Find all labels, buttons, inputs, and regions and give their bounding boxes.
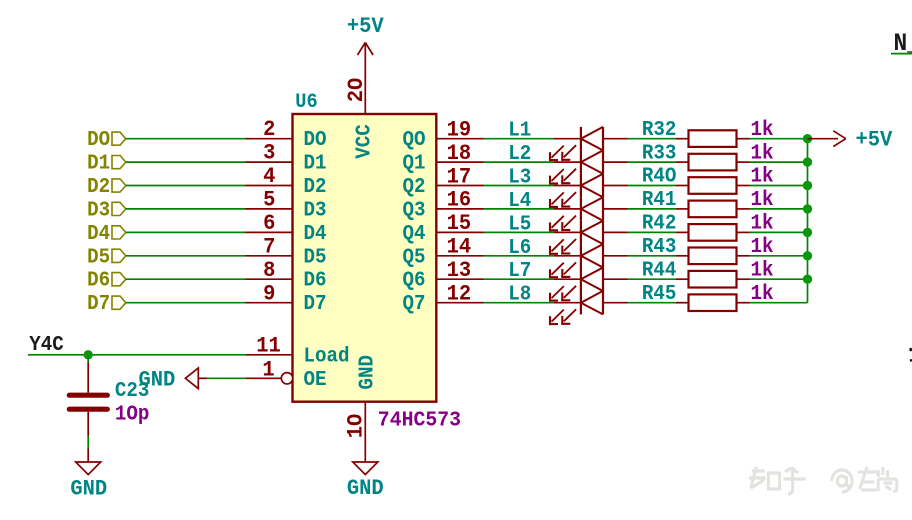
resistor R43 (642, 235, 750, 264)
svg-text:14: 14 (447, 235, 472, 260)
capacitor C23 (69, 355, 149, 436)
svg-text:19: 19 (447, 118, 472, 143)
svg-text:R33: R33 (642, 142, 677, 166)
power symbol +5V (right) (808, 128, 893, 153)
wire D7 (126, 302, 246, 304)
svg-text:Q6: Q6 (402, 269, 425, 293)
pin 6 (D4) (246, 211, 327, 246)
svg-text:D3: D3 (87, 199, 110, 223)
svg-text:L5: L5 (508, 213, 531, 237)
edge fragment (right, cut-off text) (909, 348, 912, 362)
pin 10 (GND) (344, 355, 380, 466)
svg-text:L6: L6 (508, 236, 531, 260)
pin 16 (Q3) (402, 188, 483, 223)
wire +5V vertical bus (807, 139, 809, 303)
resistor R42 (642, 212, 750, 241)
junction dot bus row 5 (803, 228, 812, 237)
svg-text:D6: D6 (87, 269, 110, 293)
svg-text:D7: D7 (87, 292, 110, 316)
pin 12 (Q7) (402, 282, 483, 317)
svg-text:QO: QO (402, 128, 425, 152)
pin 9 (D7) (246, 282, 327, 317)
hierarchical label D5 (87, 246, 126, 270)
ground symbol (below U6 pin 10) (347, 462, 384, 502)
svg-text:L8: L8 (508, 283, 531, 307)
junction dot bus row 1 (803, 134, 812, 143)
pin 20 VCC (344, 78, 377, 159)
wire D1 (126, 161, 246, 163)
wire R33 to +5V bus (750, 161, 808, 163)
watermark 知乎 @左岚 (749, 467, 897, 494)
pin 3 (D1) (246, 141, 327, 176)
value 1k (R40) (751, 165, 774, 189)
wire D2 (126, 185, 246, 187)
svg-text:L1: L1 (508, 119, 531, 143)
svg-text:5: 5 (263, 188, 275, 213)
svg-text:1: 1 (262, 358, 274, 383)
hierarchical label D6 (87, 269, 126, 293)
pin 4 (D2) (246, 164, 327, 199)
svg-text:7: 7 (263, 235, 275, 260)
hierarchical label D1 (87, 152, 126, 176)
resistor R45 (642, 282, 750, 311)
net label L5 (508, 213, 531, 237)
junction dot bus row 4 (803, 204, 812, 213)
value 1k (R43) (751, 235, 774, 259)
LED L8 (549, 291, 628, 325)
svg-text:D4: D4 (304, 222, 327, 246)
junction dot bus row 2 (803, 157, 812, 166)
svg-text:9: 9 (263, 282, 275, 307)
svg-text:D1: D1 (87, 152, 110, 176)
wire C23 to GND (87, 436, 89, 449)
svg-text:13: 13 (447, 258, 472, 283)
pin 7 (D5) (246, 235, 327, 270)
net label L4 (508, 189, 531, 213)
svg-text:L2: L2 (508, 142, 531, 166)
svg-text:D1: D1 (304, 152, 327, 176)
pin 11 (Load) (246, 334, 350, 369)
pin 15 (Q4) (402, 211, 483, 246)
wire Q0 to LED L1 (484, 138, 555, 140)
wire R42 to +5V bus (750, 231, 808, 233)
value 1k (R44) (751, 259, 774, 283)
LED L5 (549, 221, 628, 255)
svg-text:Q4: Q4 (402, 222, 425, 246)
pin 18 (Q1) (402, 141, 483, 176)
svg-text:R32: R32 (642, 118, 677, 142)
wire Q2 to LED L3 (484, 185, 555, 187)
LED L4 (549, 197, 628, 231)
svg-text:+5V: +5V (856, 128, 893, 153)
hierarchical label D2 (87, 175, 126, 199)
hierarchical label D3 (87, 199, 126, 223)
LED L6 (549, 244, 628, 278)
svg-text:18: 18 (447, 141, 472, 166)
svg-text:GND: GND (356, 355, 380, 390)
wire R41 to +5V bus (750, 208, 808, 210)
svg-text:Q3: Q3 (402, 199, 425, 223)
svg-text:Q1: Q1 (402, 152, 425, 176)
net label L6 (508, 236, 531, 260)
svg-text:11: 11 (256, 334, 281, 359)
resistor R41 (642, 188, 750, 217)
LED L1 (549, 127, 628, 161)
pin 14 (Q5) (402, 235, 483, 270)
wire LED L4 to R (628, 208, 677, 210)
LED L7 (549, 268, 628, 302)
LED L3 (549, 174, 628, 208)
pin 8 (D6) (246, 258, 327, 293)
svg-text:16: 16 (447, 188, 472, 213)
svg-text:15: 15 (447, 211, 472, 236)
wire R45 to +5V bus (750, 302, 808, 304)
svg-text:Q2: Q2 (402, 175, 425, 199)
pin 5 (D3) (246, 188, 327, 223)
LED L2 (549, 150, 628, 184)
wire Q3 to LED L4 (484, 208, 555, 210)
wire Q7 to LED L8 (484, 302, 555, 304)
svg-text:C23: C23 (115, 379, 150, 403)
wire LED L3 to R (628, 185, 677, 187)
wire Q6 to LED L7 (484, 278, 555, 280)
wire D0 (126, 138, 246, 140)
svg-text:4: 4 (263, 164, 275, 189)
wire R43 to +5V bus (750, 255, 808, 257)
svg-text:D2: D2 (87, 175, 110, 199)
svg-text:6: 6 (263, 211, 275, 236)
wire D6 (126, 278, 246, 280)
resistor R32 (642, 118, 750, 147)
value 1k (R32) (751, 118, 774, 142)
svg-text:8: 8 (263, 258, 275, 283)
wire LED L1 to R (628, 138, 677, 140)
svg-text:1O: 1O (344, 414, 369, 439)
svg-text:R45: R45 (642, 282, 677, 306)
value 1k (R33) (751, 142, 774, 166)
svg-text:DO: DO (87, 128, 110, 152)
wire OE to GND symbol (207, 377, 246, 379)
wire Q4 to LED L5 (484, 231, 555, 233)
svg-text:L4: L4 (508, 189, 531, 213)
pin 13 (Q6) (402, 258, 483, 293)
svg-text:R44: R44 (642, 259, 677, 283)
net label L8 (508, 283, 531, 307)
svg-text:D5: D5 (87, 246, 110, 270)
wire D3 (126, 208, 246, 210)
svg-text:74HC573: 74HC573 (378, 409, 461, 433)
wire LED L6 to R (628, 255, 677, 257)
svg-text:D4: D4 (87, 222, 110, 246)
svg-text:2: 2 (263, 117, 275, 142)
value 74HC573 (U6) (378, 409, 461, 433)
resistor R44 (642, 259, 750, 288)
svg-text:Q5: Q5 (402, 246, 425, 270)
junction dot bus row 6 (803, 251, 812, 260)
junction dot bus row 3 (803, 181, 812, 190)
value 1k (R41) (751, 188, 774, 212)
wire LED L2 to R (628, 161, 677, 163)
svg-text:12: 12 (447, 282, 472, 307)
wire R40 to +5V bus (750, 185, 808, 187)
wire LED L7 to R (628, 278, 677, 280)
svg-text:L3: L3 (508, 166, 531, 190)
ground symbol (below C23) (70, 449, 107, 502)
pin 1 (OE, inverted) (246, 358, 327, 393)
wire Q1 to LED L2 (484, 161, 555, 163)
wire LED L8 to R (628, 302, 677, 304)
junction dot bus row 7 (803, 275, 812, 284)
svg-text:Y4C: Y4C (29, 333, 64, 357)
net label Y4C (29, 333, 64, 357)
svg-text:3: 3 (263, 141, 275, 166)
wire R44 to +5V bus (750, 278, 808, 280)
svg-text:R42: R42 (642, 212, 677, 236)
svg-text:Load: Load (304, 345, 350, 369)
hierarchical label D0 (87, 128, 126, 152)
net label L2 (508, 142, 531, 166)
wire Q5 to LED L6 (484, 255, 555, 257)
power symbol +5V (top, U6 VCC) (347, 14, 384, 114)
value 10p (C23) (115, 403, 150, 427)
svg-text:VCC: VCC (353, 124, 377, 159)
resistor R40 (642, 165, 750, 194)
net label L3 (508, 166, 531, 190)
svg-text:2O: 2O (344, 78, 369, 103)
svg-text:OE: OE (304, 368, 327, 392)
svg-text:1Op: 1Op (115, 403, 150, 427)
ground symbol (left-pointing, at OE) (139, 368, 208, 393)
hierarchical label D4 (87, 222, 126, 246)
svg-text:17: 17 (447, 165, 472, 190)
svg-text:R4O: R4O (642, 165, 677, 189)
net label N_ (cut off, top right) (894, 30, 912, 58)
svg-text:+5V: +5V (347, 14, 384, 39)
svg-text:D7: D7 (304, 292, 327, 316)
svg-text:R41: R41 (642, 188, 677, 212)
net label L7 (508, 259, 531, 283)
resistor R33 (642, 142, 750, 171)
svg-text:D5: D5 (304, 246, 327, 270)
wire LED L5 to R (628, 231, 677, 233)
wire D4 (126, 231, 246, 233)
svg-text:GND: GND (347, 476, 384, 501)
junction dot Y4C/C23 (84, 350, 93, 359)
svg-text:D6: D6 (304, 269, 327, 293)
wire R32 to +5V bus (750, 138, 808, 140)
svg-text:GND: GND (70, 477, 107, 502)
wire under N_ label (891, 53, 912, 55)
svg-text:R43: R43 (642, 235, 677, 259)
net label L1 (508, 119, 531, 143)
value 1k (R42) (751, 212, 774, 236)
svg-text:U6: U6 (295, 90, 317, 113)
hierarchical label D7 (87, 292, 126, 316)
pin 19 (Q0) (402, 118, 483, 153)
pin 17 (Q2) (402, 165, 483, 200)
pin 2 (D0) (246, 117, 327, 152)
svg-text:D3: D3 (304, 199, 327, 223)
svg-text:DO: DO (304, 128, 327, 152)
value 1k (R45) (751, 282, 774, 306)
svg-text:L7: L7 (508, 259, 531, 283)
wire D5 (126, 255, 246, 257)
IC U6 74HC573 body (293, 90, 437, 402)
svg-text:Q7: Q7 (402, 292, 425, 316)
svg-text:D2: D2 (304, 175, 327, 199)
wire Y4C to Load pin 11 (28, 354, 246, 356)
